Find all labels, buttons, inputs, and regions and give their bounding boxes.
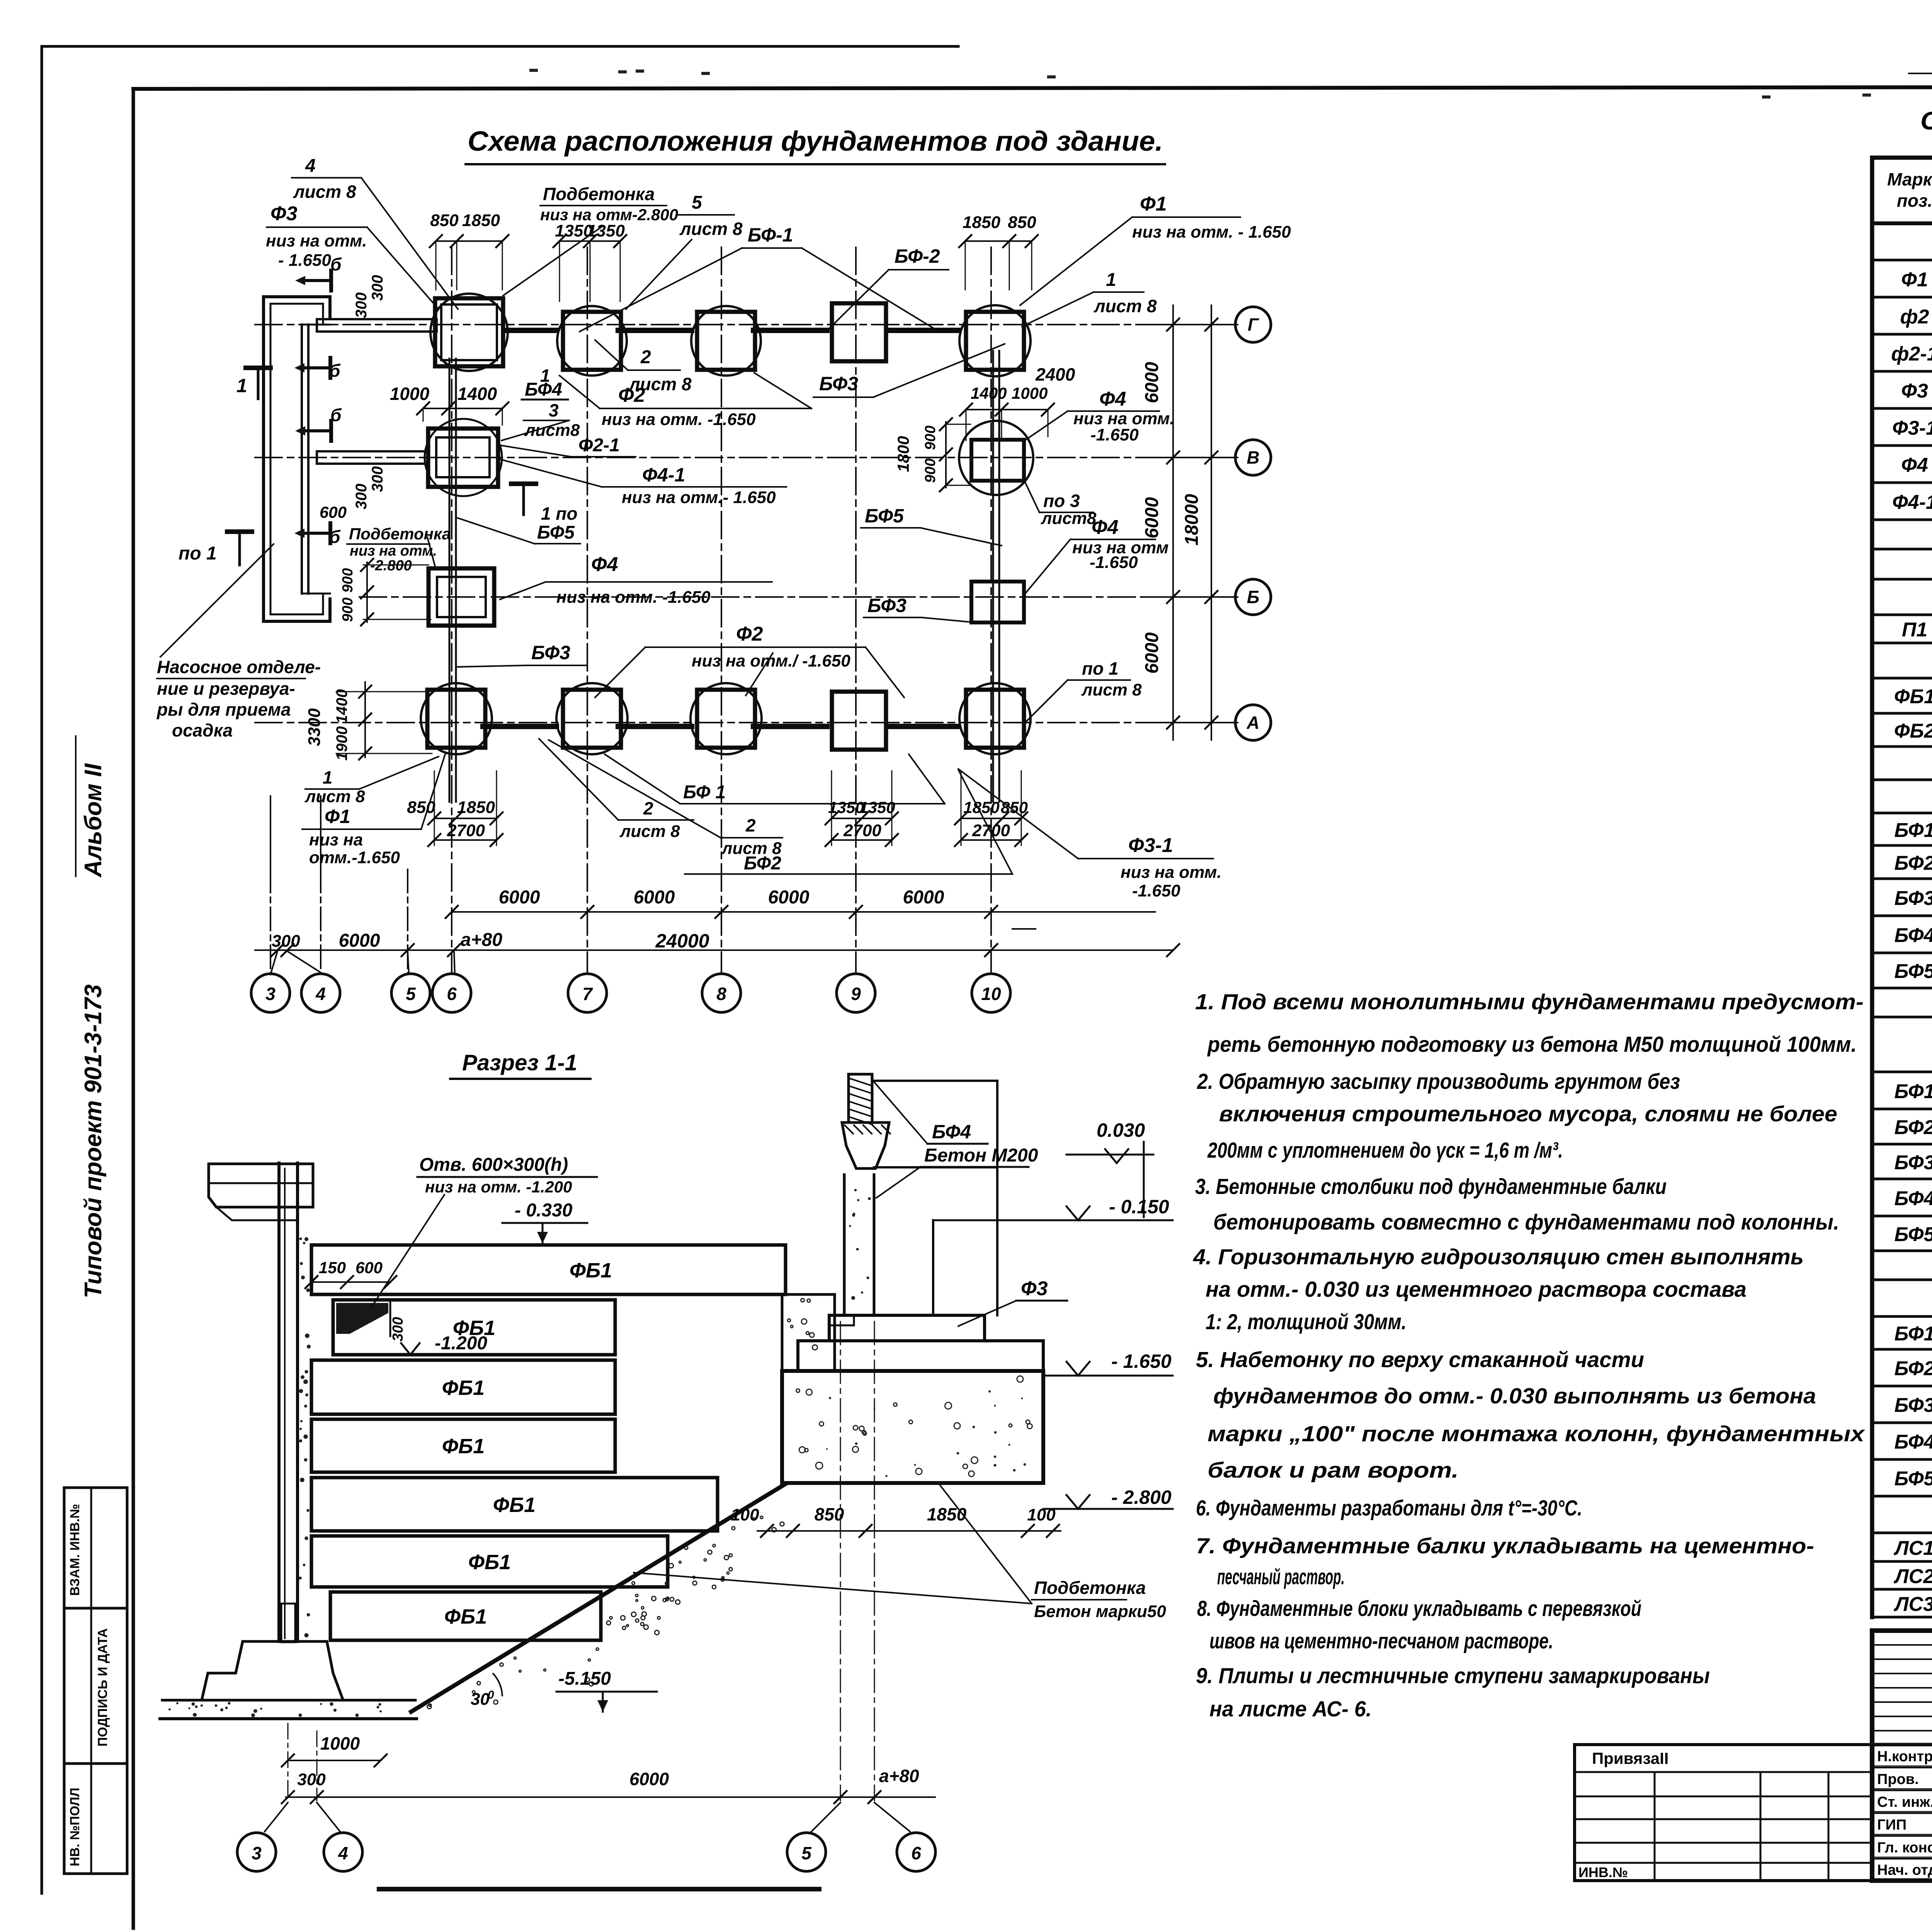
svg-text:ф2: ф2 bbox=[1900, 306, 1929, 328]
svg-text:низ на отм-2.800: низ на отм-2.800 bbox=[540, 206, 678, 224]
svg-text:Ф4: Ф4 bbox=[1092, 516, 1119, 539]
svg-text:1350: 1350 bbox=[859, 798, 895, 816]
svg-text:-1.650: -1.650 bbox=[1090, 425, 1139, 444]
svg-text:П1: П1 bbox=[1902, 619, 1927, 641]
svg-text:10: 10 bbox=[981, 984, 1001, 1004]
svg-text:850: 850 bbox=[1008, 213, 1036, 232]
svg-text:1000: 1000 bbox=[390, 384, 430, 404]
svg-text:5. Набетонку по верху стаканно: 5. Набетонку по верху стаканной части bbox=[1196, 1347, 1644, 1372]
svg-text:5: 5 bbox=[406, 984, 416, 1004]
svg-text:150: 150 bbox=[319, 1259, 346, 1277]
svg-text:24000: 24000 bbox=[655, 930, 709, 952]
svg-text:1000: 1000 bbox=[1012, 384, 1048, 402]
svg-text:6000: 6000 bbox=[903, 887, 944, 908]
svg-text:0.030: 0.030 bbox=[1097, 1119, 1145, 1141]
svg-text:БФ3: БФ3 bbox=[531, 642, 570, 663]
svg-text:поз.: поз. bbox=[1897, 190, 1932, 211]
svg-text:БФ3: БФ3 bbox=[819, 373, 858, 395]
svg-text:3300: 3300 bbox=[305, 708, 324, 746]
svg-text:1: 2, толщиной 30мм.: 1: 2, толщиной 30мм. bbox=[1206, 1310, 1406, 1334]
svg-text:Ф3: Ф3 bbox=[1021, 1277, 1048, 1300]
svg-text:600: 600 bbox=[355, 1259, 383, 1277]
svg-text:БФ4: БФ4 bbox=[1895, 1187, 1932, 1210]
svg-text:6000: 6000 bbox=[499, 887, 540, 908]
svg-text:Подбетонка: Подбетонка bbox=[1034, 1578, 1146, 1598]
svg-text:БФ3: БФ3 bbox=[1895, 1151, 1932, 1174]
svg-text:6: 6 bbox=[911, 1843, 921, 1863]
svg-text:ры для приема: ры для приема bbox=[156, 699, 291, 719]
svg-text:лист 8: лист 8 bbox=[1094, 296, 1157, 316]
svg-text:низ на отм. - 1.650: низ на отм. - 1.650 bbox=[1132, 223, 1291, 241]
svg-text:Ф2: Ф2 bbox=[736, 623, 763, 645]
svg-text:Ст. инж.: Ст. инж. bbox=[1877, 1794, 1932, 1810]
svg-text:4: 4 bbox=[305, 156, 316, 176]
svg-text:бетонировать совместно с фунда: бетонировать совместно с фундаментами по… bbox=[1213, 1210, 1839, 1235]
svg-text:низ на отм.- 1.650: низ на отм.- 1.650 bbox=[622, 488, 776, 507]
svg-text:- 0.330: - 0.330 bbox=[515, 1200, 573, 1221]
svg-text:0: 0 bbox=[488, 1689, 494, 1701]
svg-text:3: 3 bbox=[549, 400, 559, 420]
svg-text:-1.200: -1.200 bbox=[435, 1333, 487, 1354]
svg-text:900: 900 bbox=[922, 425, 939, 450]
svg-text:БФ3: БФ3 bbox=[867, 595, 906, 616]
svg-text:9: 9 bbox=[851, 984, 861, 1004]
svg-text:1 по: 1 по bbox=[541, 503, 578, 524]
svg-text:1400: 1400 bbox=[971, 384, 1007, 402]
svg-text:2: 2 bbox=[745, 815, 756, 835]
svg-text:850: 850 bbox=[407, 798, 435, 817]
svg-text:6000: 6000 bbox=[339, 930, 380, 951]
svg-text:5: 5 bbox=[692, 192, 702, 213]
svg-text:ПривязаII: ПривязаII bbox=[1592, 1749, 1668, 1767]
svg-text:Ф3-1: Ф3-1 bbox=[1128, 834, 1173, 857]
svg-text:швов на цементно-песчаном ра: швов на цементно-песчаном растворе. bbox=[1209, 1629, 1553, 1653]
svg-text:Нач. отд: Нач. отд bbox=[1877, 1862, 1932, 1878]
svg-text:900: 900 bbox=[922, 458, 939, 483]
svg-text:марки „100" после монтажа коло: марки „100" после монтажа колонн, фундам… bbox=[1207, 1422, 1866, 1446]
svg-text:БФ2: БФ2 bbox=[1895, 852, 1932, 874]
svg-text:БФ3: БФ3 bbox=[1895, 887, 1932, 910]
svg-text:ЛС1: ЛС1 bbox=[1893, 1537, 1932, 1560]
svg-text:6. Фундаменты разработаны для: 6. Фундаменты разработаны для t°=-30°С. bbox=[1196, 1496, 1582, 1520]
svg-text:БФ4: БФ4 bbox=[1895, 1431, 1932, 1453]
svg-text:ФБ2: ФБ2 bbox=[1894, 720, 1932, 742]
svg-text:1850: 1850 bbox=[462, 211, 500, 230]
svg-text:850: 850 bbox=[430, 211, 459, 230]
svg-text:3: 3 bbox=[265, 984, 276, 1004]
svg-text:БФ5: БФ5 bbox=[1895, 1468, 1932, 1490]
svg-text:Ф3: Ф3 bbox=[1901, 380, 1928, 402]
svg-text:-2.800: -2.800 bbox=[370, 558, 412, 574]
svg-text:а+80: а+80 bbox=[879, 1766, 919, 1786]
svg-text:лист 8: лист 8 bbox=[1081, 680, 1142, 699]
svg-text:18000: 18000 bbox=[1182, 494, 1202, 546]
svg-text:ФБ1: ФБ1 bbox=[493, 1493, 536, 1517]
svg-text:БФ3: БФ3 bbox=[1895, 1394, 1932, 1417]
svg-text:Ф4: Ф4 bbox=[1099, 388, 1126, 410]
svg-text:- 0.150: - 0.150 bbox=[1109, 1196, 1169, 1218]
svg-text:2: 2 bbox=[640, 347, 651, 367]
svg-text:850: 850 bbox=[1001, 798, 1028, 816]
svg-text:БФ1: БФ1 bbox=[1895, 1080, 1932, 1103]
svg-text:200мм с уплотнением до γск = 1: 200мм с уплотнением до γск = 1,6 т /м³. bbox=[1207, 1138, 1563, 1163]
svg-text:Ф3: Ф3 bbox=[270, 202, 298, 225]
svg-text:1400: 1400 bbox=[457, 384, 497, 404]
svg-text:Бетон М200: Бетон М200 bbox=[924, 1145, 1038, 1166]
svg-text:Ф1: Ф1 bbox=[1901, 269, 1928, 291]
svg-text:БФ5: БФ5 bbox=[537, 522, 575, 543]
svg-text:6: 6 bbox=[447, 984, 457, 1004]
svg-text:БФ4: БФ4 bbox=[932, 1121, 971, 1143]
svg-text:300: 300 bbox=[369, 275, 386, 301]
svg-text:6000: 6000 bbox=[629, 1769, 669, 1789]
svg-text:БФ2: БФ2 bbox=[1895, 1357, 1932, 1380]
svg-text:Ф4: Ф4 bbox=[1901, 454, 1928, 476]
svg-text:лист 8: лист 8 bbox=[293, 182, 356, 202]
svg-text:6000: 6000 bbox=[1142, 632, 1162, 673]
svg-text:Насосное отделе-: Насосное отделе- bbox=[157, 657, 321, 677]
svg-text:2700: 2700 bbox=[843, 821, 881, 840]
svg-text:Ф4-1: Ф4-1 bbox=[642, 464, 685, 486]
svg-text:низ на отм.: низ на отм. bbox=[266, 231, 367, 250]
svg-text:1850: 1850 bbox=[963, 213, 1000, 232]
svg-text:лист8: лист8 bbox=[524, 421, 580, 440]
svg-text:2: 2 bbox=[643, 798, 653, 818]
svg-text:Спецификация к схеме расположе: Спецификация к схеме расположения фундам… bbox=[1920, 106, 1932, 135]
svg-text:ние и резервуа-: ние и резервуа- bbox=[157, 679, 295, 699]
svg-text:2. Обратную засыпку производит: 2. Обратную засыпку производить грунтом … bbox=[1197, 1069, 1680, 1094]
svg-text:2700: 2700 bbox=[447, 821, 485, 840]
svg-text:низ на отм. -1.650: низ на отм. -1.650 bbox=[602, 410, 756, 429]
svg-text:ПОДПИСЬ И ДАТА: ПОДПИСЬ И ДАТА bbox=[95, 1628, 110, 1747]
svg-text:по 3: по 3 bbox=[1043, 491, 1080, 511]
svg-text:6000: 6000 bbox=[768, 887, 810, 908]
svg-text:БФ-1: БФ-1 bbox=[748, 224, 793, 246]
svg-text:а+80: а+80 bbox=[461, 930, 502, 950]
svg-text:1: 1 bbox=[236, 375, 247, 396]
svg-text:300: 300 bbox=[369, 466, 386, 492]
svg-text:6000: 6000 bbox=[1142, 362, 1162, 403]
svg-text:2400: 2400 bbox=[1035, 364, 1075, 384]
svg-text:6000: 6000 bbox=[634, 887, 675, 908]
svg-text:2700: 2700 bbox=[972, 821, 1010, 840]
svg-text:балок и рам ворот.: балок и рам ворот. bbox=[1207, 1458, 1459, 1483]
svg-text:3: 3 bbox=[252, 1843, 262, 1863]
svg-text:ф2-1: ф2-1 bbox=[1891, 343, 1932, 365]
svg-text:- 1.650: - 1.650 bbox=[1111, 1350, 1172, 1372]
svg-text:БФ5: БФ5 bbox=[1895, 960, 1932, 983]
svg-text:8: 8 bbox=[716, 984, 726, 1004]
svg-text:Типовой проект 901-3-173: Типовой проект 901-3-173 bbox=[80, 984, 107, 1298]
svg-text:4: 4 bbox=[338, 1843, 348, 1863]
svg-text:НВ. №ПОЛЛ: НВ. №ПОЛЛ bbox=[68, 1787, 82, 1866]
svg-text:В: В bbox=[1247, 447, 1259, 468]
svg-text:5: 5 bbox=[801, 1843, 812, 1863]
svg-text:300: 300 bbox=[390, 1317, 406, 1341]
svg-text:4: 4 bbox=[315, 984, 326, 1004]
svg-text:Альбом II: Альбом II bbox=[80, 763, 107, 878]
svg-text:1850: 1850 bbox=[457, 798, 495, 817]
svg-text:7: 7 bbox=[582, 984, 593, 1004]
svg-text:ФБ1: ФБ1 bbox=[570, 1259, 612, 1282]
svg-text:Марка: Марка bbox=[1887, 169, 1932, 189]
svg-text:9. Плиты и лестничные ступени: 9. Плиты и лестничные ступени замаркиров… bbox=[1196, 1663, 1710, 1688]
svg-text:ЛС3: ЛС3 bbox=[1893, 1593, 1932, 1616]
svg-text:низ на отм. -1.200: низ на отм. -1.200 bbox=[425, 1178, 572, 1196]
svg-text:фундаментов до отм.- 0.030 в: фундаментов до отм.- 0.030 выполнять из … bbox=[1213, 1384, 1816, 1408]
svg-text:300: 300 bbox=[353, 484, 370, 510]
svg-text:БФ4: БФ4 bbox=[525, 379, 562, 400]
svg-text:1: 1 bbox=[1106, 270, 1116, 290]
svg-text:Б: Б bbox=[1247, 587, 1260, 607]
svg-text:на отм.- 0.030 из цементного р: на отм.- 0.030 из цементного раствора со… bbox=[1206, 1277, 1747, 1302]
svg-text:7. Фундаментные балки уклады: 7. Фундаментные балки укладывать на цеме… bbox=[1196, 1534, 1814, 1558]
svg-text:Подбетонка: Подбетонка bbox=[349, 525, 451, 543]
svg-text:-1.650: -1.650 bbox=[1090, 553, 1138, 572]
svg-text:БФ-2: БФ-2 bbox=[895, 245, 940, 267]
svg-text:1000: 1000 bbox=[320, 1733, 360, 1753]
svg-text:песчаный раствор.: песчаный раствор. bbox=[1217, 1565, 1345, 1589]
svg-text:БФ2: БФ2 bbox=[744, 853, 781, 874]
svg-text:лист 8: лист 8 bbox=[679, 219, 743, 239]
svg-text:100: 100 bbox=[731, 1505, 759, 1524]
svg-text:ЛС2: ЛС2 bbox=[1893, 1565, 1932, 1588]
svg-text:100: 100 bbox=[1027, 1505, 1056, 1524]
svg-text:Ф1: Ф1 bbox=[325, 806, 350, 827]
svg-text:Разрез 1-1: Разрез 1-1 bbox=[462, 1050, 577, 1075]
svg-text:Ф4: Ф4 bbox=[591, 553, 618, 576]
svg-text:БФ5: БФ5 bbox=[1895, 1223, 1932, 1246]
svg-text:300: 300 bbox=[272, 932, 300, 951]
svg-text:Ф4-1: Ф4-1 bbox=[1892, 491, 1932, 514]
svg-text:БФ1: БФ1 bbox=[1895, 1323, 1932, 1345]
svg-text:1. Под всеми монолитными фунда: 1. Под всеми монолитными фундаментами пр… bbox=[1195, 990, 1864, 1014]
svg-text:3. Бетонные столбики под фунда: 3. Бетонные столбики под фундаментные ба… bbox=[1195, 1174, 1667, 1199]
svg-text:1350: 1350 bbox=[587, 221, 625, 240]
svg-text:1800: 1800 bbox=[894, 436, 912, 472]
svg-text:низ на отм. -1.650: низ на отм. -1.650 bbox=[556, 588, 711, 607]
svg-text:6000: 6000 bbox=[1142, 497, 1162, 538]
svg-text:по 1: по 1 bbox=[179, 543, 217, 564]
svg-text:ФБ1: ФБ1 bbox=[442, 1435, 485, 1458]
svg-text:отм.-1.650: отм.-1.650 bbox=[309, 848, 400, 867]
svg-text:осадка: осадка bbox=[172, 720, 233, 740]
svg-text:1: 1 bbox=[323, 767, 333, 787]
svg-text:Гл. конст.: Гл. конст. bbox=[1877, 1840, 1932, 1856]
svg-text:Бетон марки50: Бетон марки50 bbox=[1034, 1602, 1166, 1621]
svg-text:лист 8: лист 8 bbox=[304, 787, 365, 806]
svg-text:ФБ1: ФБ1 bbox=[1894, 685, 1932, 708]
svg-text:Н.контр.: Н.контр. bbox=[1877, 1748, 1932, 1765]
svg-text:на листе АС- 6.: на листе АС- 6. bbox=[1209, 1697, 1372, 1721]
svg-text:Ф1: Ф1 bbox=[1140, 193, 1167, 215]
svg-text:Отв. 600×300(h): Отв. 600×300(h) bbox=[419, 1155, 568, 1175]
svg-text:Ф2: Ф2 bbox=[618, 384, 645, 406]
svg-text:низ на: низ на bbox=[309, 830, 363, 849]
svg-text:ИНВ.№: ИНВ.№ bbox=[1578, 1864, 1628, 1880]
svg-text:1400: 1400 bbox=[333, 689, 350, 724]
svg-text:низ на отм.: низ на отм. bbox=[1121, 863, 1222, 882]
svg-text:БФ1: БФ1 bbox=[1895, 819, 1932, 842]
svg-text:Схема расположения фундаментов: Схема расположения фундаментов под здани… bbox=[468, 126, 1163, 157]
svg-text:1850: 1850 bbox=[927, 1504, 967, 1524]
svg-text:БФ5: БФ5 bbox=[865, 505, 904, 527]
svg-text:Пров.: Пров. bbox=[1877, 1771, 1919, 1787]
svg-text:лист8: лист8 bbox=[1041, 509, 1097, 528]
svg-text:30: 30 bbox=[471, 1690, 490, 1709]
svg-text:- 2.800: - 2.800 bbox=[1111, 1486, 1172, 1508]
svg-text:низ на отм.: низ на отм. bbox=[350, 543, 437, 559]
svg-text:ГИП: ГИП bbox=[1877, 1817, 1906, 1833]
svg-text:реть бетонную подготовку из бе: реть бетонную подготовку из бетона М50 т… bbox=[1207, 1032, 1857, 1057]
svg-text:- 1.650: - 1.650 bbox=[278, 251, 332, 270]
svg-text:лист 8: лист 8 bbox=[619, 822, 680, 841]
svg-text:А: А bbox=[1246, 713, 1259, 733]
svg-text:включения строительного мусора: включения строительного мусора, слоями н… bbox=[1219, 1102, 1837, 1126]
svg-text:Г: Г bbox=[1248, 315, 1259, 335]
svg-text:Ф2-1: Ф2-1 bbox=[578, 435, 620, 456]
svg-text:БФ 1: БФ 1 bbox=[683, 782, 726, 803]
svg-text:8. Фундаментные блоки укладыв: 8. Фундаментные блоки укладывать с перев… bbox=[1197, 1596, 1641, 1621]
svg-text:850: 850 bbox=[815, 1504, 844, 1524]
svg-text:600: 600 bbox=[320, 503, 347, 521]
svg-text:-5.150: -5.150 bbox=[558, 1668, 611, 1689]
svg-text:4. Горизонтальную гидроизоляци: 4. Горизонтальную гидроизоляцию стен вып… bbox=[1193, 1245, 1804, 1269]
svg-text:Подбетонка: Подбетонка bbox=[543, 184, 655, 204]
svg-text:ВЗАМ. ИНВ.№: ВЗАМ. ИНВ.№ bbox=[68, 1504, 82, 1596]
svg-text:ФБ1: ФБ1 bbox=[444, 1605, 487, 1628]
svg-text:300: 300 bbox=[297, 1770, 326, 1789]
svg-text:-1.650: -1.650 bbox=[1132, 881, 1180, 900]
svg-text:Ф3-1: Ф3-1 bbox=[1892, 417, 1932, 439]
svg-text:900: 900 bbox=[340, 597, 356, 622]
svg-text:ФБ1: ФБ1 bbox=[442, 1376, 485, 1400]
svg-text:900: 900 bbox=[340, 568, 356, 592]
svg-text:ФБ1: ФБ1 bbox=[468, 1551, 511, 1574]
svg-text:БФ2: БФ2 bbox=[1895, 1116, 1932, 1139]
svg-text:300: 300 bbox=[353, 293, 370, 318]
svg-text:1900: 1900 bbox=[333, 726, 350, 761]
svg-text:БФ4: БФ4 bbox=[1895, 924, 1932, 947]
svg-text:по 1: по 1 bbox=[1082, 658, 1119, 679]
